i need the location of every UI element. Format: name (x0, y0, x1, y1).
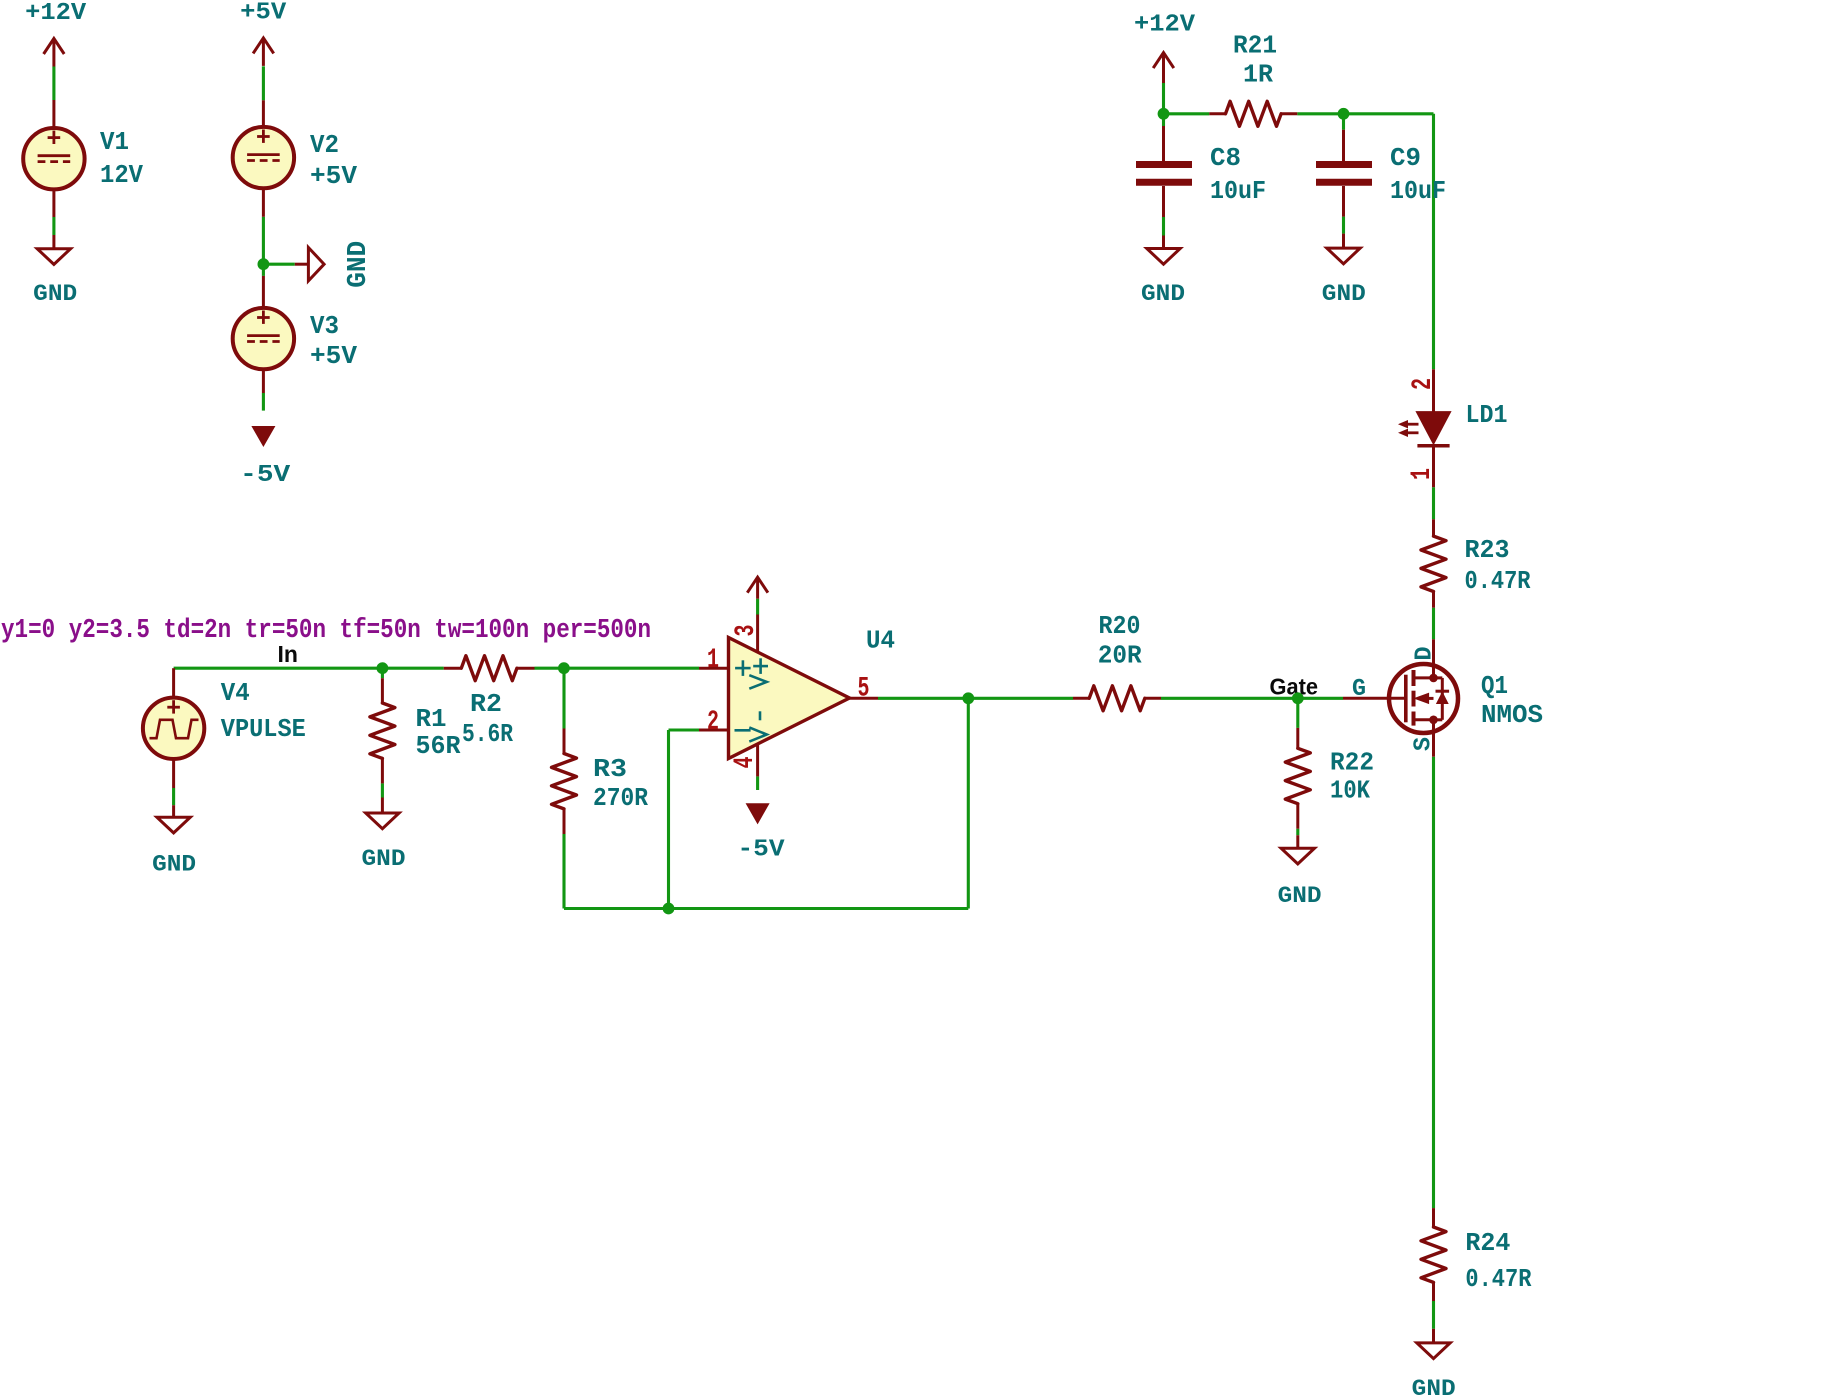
power arrow op-amp V+ (756, 577, 759, 599)
resistor R24 (1432, 1208, 1435, 1227)
wire top rail down to LD1 (1432, 114, 1435, 369)
svg-text:+5V: +5V (310, 161, 357, 191)
svg-text:GND: GND (33, 281, 77, 308)
svg-text:10uF: 10uF (1210, 176, 1266, 206)
svg-text:V2: V2 (310, 130, 339, 160)
wire LD1 to R23 (1432, 487, 1435, 519)
wire op-amp output to R20 (878, 697, 1073, 700)
LED LD1 (1432, 369, 1435, 412)
power +5V symbol (262, 38, 265, 66)
power -5V symbol under op-amp (747, 804, 768, 822)
svg-text:1: 1 (707, 645, 719, 676)
op-amp U4 body (729, 638, 850, 759)
svg-text:GND: GND (1322, 281, 1366, 308)
svg-text:R23: R23 (1465, 535, 1510, 565)
svg-text:U4: U4 (866, 625, 895, 655)
resistor R21 (1209, 112, 1225, 115)
svg-text:1: 1 (1407, 468, 1438, 480)
svg-text:GND: GND (1278, 883, 1322, 910)
wire pin2 vertical feedback (667, 730, 670, 909)
wire V4 bottom to GND (172, 788, 175, 805)
svg-text:GND: GND (1141, 281, 1185, 308)
svg-text:5.6R: 5.6R (462, 719, 513, 749)
transistor Q1 (1389, 664, 1458, 733)
power +12V symbol right (1162, 53, 1165, 83)
svg-text:R20: R20 (1099, 611, 1141, 641)
wire R3 bottom to feedback rail (562, 834, 565, 909)
capacitor C8 (1162, 126, 1165, 162)
op-amp chevron lower (749, 727, 766, 741)
wire R22 bottom to GND (1296, 829, 1299, 836)
wire op-amp pin4 to -5V (756, 776, 759, 790)
junction V2 V3 GND (258, 258, 270, 270)
svg-text:R22: R22 (1330, 748, 1374, 778)
resistor R23 (1432, 519, 1435, 536)
wire R1 bottom to GND (381, 783, 384, 797)
svg-text:5: 5 (858, 674, 870, 705)
svg-text:2: 2 (707, 707, 719, 738)
ground under C9 (1342, 234, 1345, 249)
svg-text:R24: R24 (1465, 1228, 1510, 1258)
svg-text:R1: R1 (416, 704, 447, 734)
wire output feedback vertical (967, 698, 970, 908)
svg-text:10uF: 10uF (1390, 176, 1446, 206)
svg-text:V3: V3 (310, 311, 339, 341)
junction R21 C9 (1338, 108, 1350, 120)
resistor R2 (444, 667, 462, 670)
wire +12V junction to R21 (1164, 112, 1210, 115)
svg-text:Q1: Q1 (1481, 671, 1508, 701)
wire +12V rail top right (1162, 83, 1165, 126)
wire feedback bottom rail (564, 907, 968, 910)
wire gate junction to R22 (1296, 698, 1299, 728)
voltage source V1 (52, 100, 55, 128)
wire +5V to V2 (262, 66, 265, 100)
junction In at R3 (558, 662, 570, 674)
op-amp pin 2 stub (699, 729, 730, 732)
resistor R22 (1296, 728, 1299, 748)
svg-text:+5V: +5V (310, 341, 357, 371)
svg-text:GND: GND (362, 846, 406, 873)
voltage source V3 (262, 276, 265, 308)
svg-text:VPULSE: VPULSE (221, 714, 306, 744)
svg-text:12V: 12V (100, 160, 143, 190)
svg-text:+12V: +12V (1134, 12, 1196, 39)
svg-text:270R: 270R (593, 783, 648, 813)
svg-text:3: 3 (731, 625, 762, 637)
svg-text:R3: R3 (593, 754, 627, 784)
op-amp pin 4 stub (756, 744, 759, 777)
svg-text:0.47R: 0.47R (1465, 566, 1531, 596)
svg-text:2: 2 (1408, 378, 1439, 390)
ground under V4 (172, 805, 175, 817)
wire C9 junction stub (1342, 118, 1345, 130)
svg-text:R21: R21 (1233, 31, 1277, 61)
wire junction to R3 (562, 668, 565, 728)
wire op-amp pin3 to power arrow (756, 599, 759, 615)
voltage source V4 VPULSE (172, 668, 175, 697)
svg-text:y1=0 y2=3.5 td=2n tr=50n tf=5: y1=0 y2=3.5 td=2n tr=50n tf=50n tw=100n … (1, 616, 651, 646)
op-amp pin 1 stub (699, 667, 730, 670)
svg-text:0.47R: 0.47R (1465, 1264, 1531, 1294)
svg-text:S: S (1411, 737, 1438, 751)
wire GND stub at V2/V3 junction (263, 263, 294, 266)
svg-text:GND: GND (1412, 1376, 1456, 1396)
svg-text:GND: GND (152, 852, 196, 879)
svg-text:D: D (1411, 647, 1438, 661)
junction gate (1292, 692, 1304, 704)
svg-text:LD1: LD1 (1466, 400, 1508, 430)
wire junction to R1 (381, 668, 384, 678)
svg-text:1R: 1R (1243, 60, 1273, 90)
wire Q1 source to R24 (1432, 757, 1435, 1208)
op-amp pin 5 stub (850, 697, 879, 700)
ground under R24 (1432, 1329, 1435, 1343)
op-amp chevron upper (749, 675, 766, 689)
wire pin2 stub (669, 728, 700, 731)
svg-text:10K: 10K (1330, 776, 1370, 806)
wire R24 bottom to GND (1432, 1301, 1435, 1329)
op-amp minus marker inner (759, 711, 762, 720)
svg-text:20R: 20R (1098, 641, 1142, 671)
svg-text:NMOS: NMOS (1481, 700, 1543, 730)
wire V3 bottom to -5V (262, 393, 265, 411)
svg-text:4: 4 (730, 757, 761, 769)
resistor R20 (1073, 697, 1089, 700)
op-amp pin 3 stub (756, 615, 759, 653)
resistor R3 (563, 729, 566, 754)
ground under V1 (52, 235, 55, 249)
voltage source V2 (262, 100, 265, 127)
svg-text:-5V: -5V (240, 462, 291, 489)
junction feedback bottom (663, 903, 675, 915)
power -5V symbol under V3 (253, 427, 274, 445)
svg-text:56R: 56R (416, 731, 461, 761)
wire In net: V4 to op-amp pin 1 (174, 667, 444, 670)
svg-text:V4: V4 (221, 678, 250, 708)
ground under R22 (1296, 835, 1299, 848)
svg-text:G: G (1352, 676, 1366, 703)
wire +12V to V1 (52, 67, 55, 101)
capacitor C9 (1342, 130, 1345, 162)
junction +12V C8 (1158, 108, 1170, 120)
junction In at R1 (377, 662, 389, 674)
ground under C8 (1162, 236, 1165, 249)
wire R21 to C9 junction and corner (1297, 112, 1433, 115)
op-amp plus marker inner (753, 665, 768, 668)
wire C9 bottom to GND (1342, 217, 1345, 234)
svg-text:V1: V1 (100, 127, 129, 157)
svg-text:R2: R2 (470, 689, 502, 719)
svg-text:C8: C8 (1210, 143, 1241, 173)
svg-text:GND: GND (344, 241, 374, 288)
wire V1 bottom to GND (52, 217, 55, 235)
junction op-amp output (962, 692, 974, 704)
resistor R1 (381, 678, 384, 703)
svg-text:+5V: +5V (240, 0, 287, 27)
power +12V symbol left (52, 39, 55, 67)
wire C8 bottom to GND (1162, 217, 1165, 236)
svg-text:-5V: -5V (738, 837, 786, 864)
svg-text:In: In (278, 641, 298, 667)
ground under R1 (381, 798, 384, 814)
ground right of V2/V3 (295, 263, 309, 266)
wire R23 to Q1 drain (1432, 608, 1435, 640)
wire R20 to Q1 gate (1161, 697, 1343, 700)
wire In net right segment (535, 667, 700, 670)
op-amp minus marker pin2 (735, 729, 751, 732)
wire V2 to V3 through GND junction (262, 217, 265, 276)
svg-text:C9: C9 (1390, 143, 1421, 173)
op-amp plus marker pin1 (735, 667, 751, 670)
svg-text:+12V: +12V (25, 0, 87, 27)
